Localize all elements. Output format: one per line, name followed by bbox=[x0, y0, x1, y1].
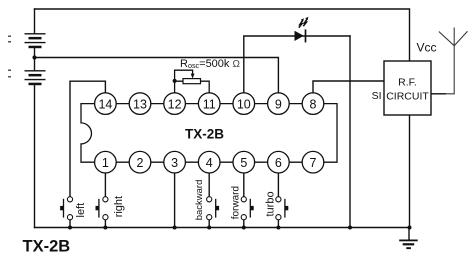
switch S5 turbo bbox=[276, 197, 289, 228]
battery BT2 bbox=[25, 71, 46, 85]
junction RF ground / rail bbox=[408, 226, 412, 230]
antenna ANT1 bbox=[439, 28, 468, 94]
svg-text:CIRCUIT: CIRCUIT bbox=[386, 91, 429, 103]
wire battery bottom to ground rail bbox=[34, 85, 36, 227]
switch S4 forward bbox=[241, 197, 254, 228]
svg-text:TX-2B: TX-2B bbox=[23, 237, 71, 255]
svg-text:right: right bbox=[113, 196, 125, 217]
pin 13 bbox=[129, 93, 151, 115]
svg-text:6: 6 bbox=[275, 156, 282, 170]
wire RF box bottom to ground rail bbox=[409, 115, 411, 228]
resistor Rosc leads bbox=[175, 81, 210, 104]
svg-text:11: 11 bbox=[203, 97, 216, 111]
pin 3 bbox=[164, 151, 186, 173]
svg-text:forward: forward bbox=[231, 186, 242, 219]
wire top Vcc rail bbox=[35, 9, 410, 61]
wire pin 6 to turbo switch bbox=[277, 162, 279, 197]
switch S2 right bbox=[96, 197, 109, 228]
wire LED cathode down to ground rail bbox=[349, 36, 351, 228]
pin 2 bbox=[129, 151, 151, 173]
pin 6 bbox=[268, 151, 290, 173]
switch S3 backward bbox=[207, 197, 220, 228]
svg-text:1: 1 bbox=[102, 156, 109, 170]
wire pin 3 to ground rail bbox=[174, 162, 176, 227]
pin 12 bbox=[164, 93, 186, 115]
resistor Rosc body bbox=[183, 79, 201, 84]
svg-text:7: 7 bbox=[310, 156, 317, 170]
svg-text:turbo: turbo bbox=[265, 191, 277, 216]
wire between batteries bbox=[34, 48, 36, 71]
battery BT1 bbox=[25, 34, 46, 48]
pin 7 bbox=[302, 151, 324, 173]
ground symbol bbox=[399, 240, 418, 250]
trimmer arrowhead bbox=[191, 74, 195, 79]
junction forward switch / rail bbox=[242, 226, 246, 230]
svg-text:SI: SI bbox=[372, 90, 382, 102]
svg-text:TX-2B: TX-2B bbox=[185, 126, 224, 141]
pin 9 bbox=[268, 93, 290, 115]
svg-text:2: 2 bbox=[137, 156, 144, 170]
LED emission arrow 2 bbox=[303, 17, 308, 26]
svg-text:13: 13 bbox=[133, 97, 147, 111]
pin 8 bbox=[302, 93, 324, 115]
svg-text:3: 3 bbox=[171, 156, 178, 170]
wire mid tap to pin 9 bbox=[35, 58, 279, 104]
wire pin 4 to backward switch bbox=[208, 162, 210, 197]
svg-text:Vcc: Vcc bbox=[417, 41, 437, 55]
svg-text:12: 12 bbox=[168, 97, 182, 111]
wire RF output to antenna bbox=[431, 93, 446, 95]
svg-text:backward: backward bbox=[194, 180, 205, 221]
pin 4 bbox=[198, 151, 220, 173]
svg-text:9: 9 bbox=[275, 97, 282, 111]
junction right switch / rail bbox=[103, 226, 107, 230]
wire pin 1 to right switch bbox=[104, 162, 106, 197]
pin 14 bbox=[95, 93, 117, 115]
wire pin 14 to left switch bbox=[70, 81, 105, 197]
junction LED cathode / rail bbox=[348, 226, 352, 230]
svg-text:8: 8 bbox=[310, 97, 317, 111]
wire pin 10 to LED anode bbox=[244, 36, 350, 104]
left edge scan marks bbox=[8, 36, 11, 78]
pin 11 bbox=[198, 93, 220, 115]
junction left switch / rail bbox=[68, 226, 72, 230]
junction pin3 / rail bbox=[173, 226, 177, 230]
LED emission arrow 1 bbox=[299, 18, 304, 27]
svg-text:10: 10 bbox=[237, 97, 251, 111]
LED D1 bbox=[295, 29, 306, 42]
svg-text:left: left bbox=[75, 203, 87, 218]
ground stem bbox=[408, 228, 410, 240]
junction turbo switch / rail bbox=[276, 226, 280, 230]
IC U1 TX-2B body bbox=[81, 104, 337, 163]
junction battery tap bbox=[32, 55, 36, 59]
pin 5 bbox=[233, 151, 255, 173]
wire battery top lead bbox=[34, 9, 36, 34]
wire pin 5 to forward switch bbox=[243, 162, 245, 197]
wire ground rail bbox=[35, 227, 410, 229]
svg-text:5: 5 bbox=[240, 156, 247, 170]
trimmer resistor Rosc wiper bbox=[175, 70, 193, 81]
pin 10 bbox=[233, 93, 255, 115]
wire pin 8 to SI input bbox=[313, 81, 384, 104]
switch S1 left bbox=[60, 197, 73, 228]
svg-text:4: 4 bbox=[206, 156, 213, 170]
svg-text:R.F.: R.F. bbox=[398, 77, 417, 89]
op block U2 R.F. CIRCUIT bbox=[384, 61, 431, 115]
junction trimmer left bbox=[173, 79, 177, 83]
svg-text:14: 14 bbox=[98, 97, 112, 111]
junction backward switch / rail bbox=[207, 226, 211, 230]
pin 1 bbox=[95, 151, 117, 173]
